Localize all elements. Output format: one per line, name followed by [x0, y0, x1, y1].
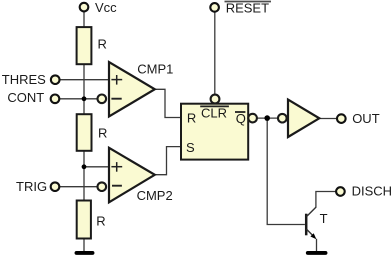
buffer input bubble	[278, 114, 287, 123]
svg-text:DISCH: DISCH	[352, 184, 392, 199]
wire Q bubble to buffer input bubble	[257, 117, 278, 119]
wire Vcc to R1	[83, 12, 85, 27]
ground (left, under R3)	[77, 251, 93, 255]
node divider tap CONT	[82, 96, 87, 101]
svg-text:R: R	[96, 214, 105, 229]
wire buffer output to OUT	[320, 118, 337, 120]
svg-text:THRES: THRES	[2, 72, 46, 87]
CMP1 inverting input bubble	[98, 95, 107, 104]
wire R2 to R3 (divider bus lower)	[83, 151, 85, 200]
wire RESET to CLR bubble	[214, 12, 216, 94]
transistor T collector stroke	[307, 207, 316, 216]
flip-flop U1	[181, 104, 248, 160]
resistor R3	[77, 201, 91, 239]
CMP1 inverting input mark -	[111, 98, 121, 100]
svg-text:CONT: CONT	[7, 90, 44, 105]
wire divider tap to CMP2 plus input	[84, 166, 110, 168]
CMP2 non-inverting input mark +	[111, 166, 122, 168]
op-amp CMP1	[109, 62, 155, 117]
wire TRIG to CMP2 minus bubble	[60, 186, 98, 188]
wire CMP1 output to R input of flip-flop	[155, 89, 181, 117]
wire CMP2 output to S input of flip-flop	[155, 147, 181, 175]
svg-text:R: R	[187, 110, 196, 125]
ground (right, under transistor)	[308, 251, 326, 255]
svg-text:TRIG: TRIG	[16, 179, 47, 194]
op-amp CMP2	[109, 148, 155, 203]
wire CONT to CMP1 minus bubble	[60, 98, 98, 100]
svg-text:OUT: OUT	[352, 111, 380, 126]
wire transistor emitter to ground	[316, 239, 318, 252]
node divider tap CMP2	[82, 164, 87, 169]
CMP2 inverting input mark -	[112, 185, 122, 187]
resistor R2	[77, 114, 92, 151]
CMP1 non-inverting input mark +	[111, 79, 122, 81]
transistor T emitter arrowhead	[310, 233, 316, 239]
wire THRES to CMP1 plus input	[60, 79, 110, 81]
wire Q node down to transistor base	[267, 118, 305, 224]
wire transistor collector to DISCH	[316, 192, 336, 208]
terminal DISCH	[336, 187, 345, 196]
transistor T emitter stroke	[307, 229, 314, 237]
svg-text:R: R	[98, 125, 107, 140]
terminal CONT	[51, 95, 60, 104]
svg-text:CLR: CLR	[201, 106, 227, 121]
wire R3 to ground	[83, 239, 85, 252]
terminal THRES	[51, 75, 60, 84]
buffer output driver	[288, 100, 319, 137]
terminal OUT	[337, 114, 346, 123]
flip-flop Q output bubble	[248, 114, 257, 123]
transistor T base bar	[305, 214, 308, 236]
terminal RESET	[210, 3, 219, 12]
svg-text:R: R	[98, 37, 107, 52]
svg-text:T: T	[320, 211, 328, 226]
svg-text:CMP1: CMP1	[137, 61, 173, 76]
wire R1 to R2 (divider bus upper)	[83, 65, 85, 114]
svg-text:CMP2: CMP2	[137, 188, 173, 203]
svg-text:Vcc: Vcc	[95, 0, 117, 15]
flip-flop CLR bubble	[211, 95, 220, 104]
terminal TRIG	[51, 182, 60, 191]
CMP2 inverting input bubble	[98, 182, 107, 191]
node Q junction	[264, 115, 270, 121]
terminal Vcc	[80, 3, 89, 12]
svg-text:Q: Q	[236, 111, 246, 126]
svg-text:RESET: RESET	[226, 1, 269, 16]
svg-text:S: S	[186, 140, 195, 155]
resistor R1	[77, 27, 92, 64]
